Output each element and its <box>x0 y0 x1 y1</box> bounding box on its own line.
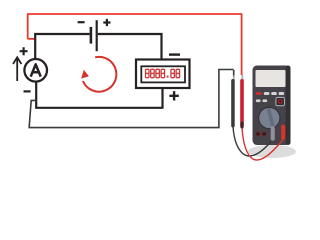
multimeter button red <box>256 92 262 95</box>
ammeter label plus <box>20 47 28 55</box>
wire: red junction to ammeter stem <box>28 38 36 40</box>
multimeter jack 2 <box>262 132 266 136</box>
red probe body <box>240 79 244 128</box>
battery B1 positive bar <box>96 20 98 51</box>
multimeter buttons grey row1 <box>264 92 270 95</box>
black test lead wire to meter <box>233 127 272 157</box>
multimeter screen <box>256 70 286 87</box>
black probe metal shaft <box>233 76 235 81</box>
display label plus <box>169 91 178 100</box>
multimeter buttons grey row2 <box>256 99 261 102</box>
battery label minus <box>78 21 85 23</box>
multimeter jack 1 <box>256 132 260 136</box>
wire: top from ammeter to battery minus <box>35 34 89 60</box>
battery B1 negative bar <box>90 27 93 44</box>
display D1 inner box <box>141 66 185 82</box>
multimeter red plug <box>281 125 285 140</box>
display label minus <box>169 53 180 55</box>
wire: outer loop to black probe <box>28 70 233 128</box>
black probe tip <box>233 70 235 77</box>
wire: inner bottom from ammeter to display bottom <box>35 88 162 109</box>
black probe body <box>231 79 235 128</box>
wire: battery plus to display top <box>98 34 162 60</box>
red test lead wire to meter <box>242 128 283 161</box>
multimeter rotary dial <box>258 107 280 129</box>
current direction arrow <box>16 59 18 82</box>
display D1 outer box <box>136 60 190 89</box>
ammeter A1 <box>24 59 47 82</box>
wire: red rail from circuit to red probe <box>28 14 242 75</box>
multimeter shadow <box>248 145 296 158</box>
ammeter label minus <box>24 90 31 92</box>
multimeter square button with red ring <box>276 97 285 105</box>
battery label plus <box>103 19 110 26</box>
multimeter body <box>253 66 291 146</box>
motor rotation arc <box>83 57 116 92</box>
display digits <box>146 69 150 73</box>
red probe dark cap <box>240 122 243 129</box>
motor arrow head <box>81 70 89 79</box>
wire: ammeter bottom stem <box>35 81 37 108</box>
red probe metal shaft <box>242 75 244 81</box>
multimeter grey plug <box>271 126 275 140</box>
